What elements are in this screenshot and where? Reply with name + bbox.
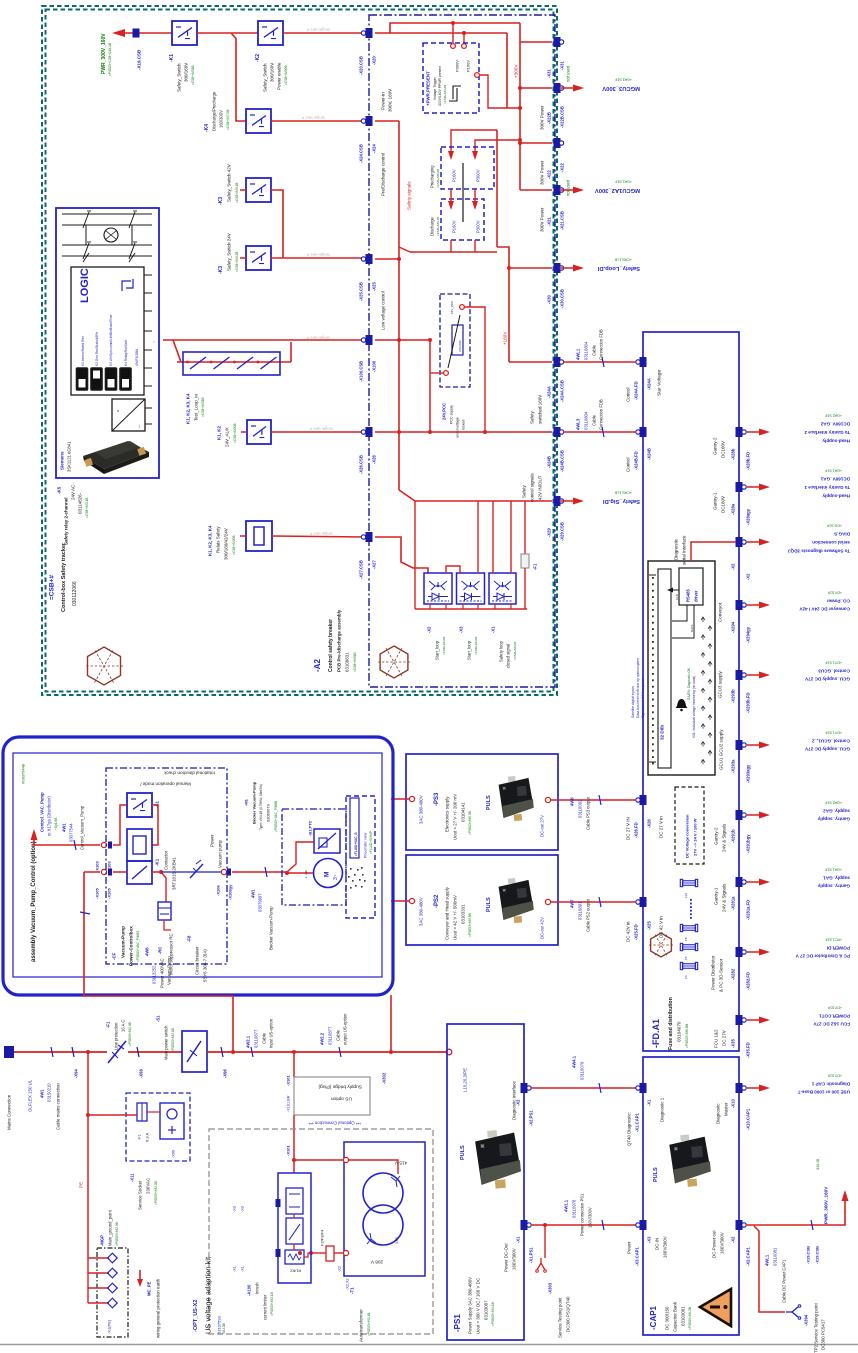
svg-text:CLK: CLK (675, 594, 679, 600)
svg-text:24V.PCC: 24V.PCC (442, 403, 447, 420)
wire X31 tap (520, 41, 552, 43)
svg-text:PULS: PULS (653, 1167, 659, 1182)
socket outlet (160, 1103, 184, 1139)
svg-text:-X101.BR: -X101.BR (286, 1095, 290, 1112)
svg-text:Diagnostic: Diagnostic (674, 538, 679, 560)
US voltage adaption kit boundary (209, 1129, 433, 1334)
svg-text:4W1: 4W1 (251, 889, 256, 898)
svg-text:-X19.CSB: -X19.CSB (137, 49, 142, 70)
power supply PS1 box (447, 1024, 524, 1340)
svg-text:Diagnostic 1: Diagnostic 1 (660, 1097, 665, 1122)
svg-text:-X2: -X2 (731, 1236, 736, 1243)
svg-text:-X1: -X1 (240, 1266, 244, 1272)
svg-text:-X27.CSB: -X27.CSB (359, 560, 364, 579)
data bus lines (672, 605, 687, 621)
svg-text:POWER.DI: POWER.DI (827, 945, 850, 950)
svg-text:-X2: -X2 (746, 573, 751, 580)
svg-text:Power: Power (627, 1241, 632, 1254)
svg-text:03113252: 03113252 (152, 965, 157, 984)
svg-text:3~: 3~ (333, 874, 339, 880)
svg-text:-X291b: -X291b (731, 829, 736, 843)
svg-text:F5: F5 (684, 956, 688, 960)
svg-text:=CSB+/M30B: =CSB+/M30B (284, 66, 288, 86)
node X24A on CSB border (554, 357, 561, 367)
svg-text:-PS2: -PS2 (434, 894, 440, 908)
svg-text:CO_Power: CO_Power (827, 598, 850, 603)
cable 4W2.2 output US-option (339, 1047, 341, 1057)
wire X22 tap (520, 142, 552, 144)
off-page head supply GA2 (747, 431, 762, 433)
service socket box (126, 1093, 190, 1161)
svg-text:Cable PS2 output: Cable PS2 output (586, 898, 591, 932)
discharge return wires (451, 240, 497, 252)
LED strip (658, 569, 671, 768)
socket wires (88, 1114, 137, 1116)
svg-text:F2/F3/F4: F2/F3/F4 (319, 1229, 324, 1246)
CSB logo hexagon (88, 647, 121, 685)
svg-text:-K2: -K2 (255, 54, 261, 62)
node X24B on CSB border (554, 427, 561, 437)
safety switch K1 (172, 21, 197, 45)
discharge block (441, 199, 484, 240)
FD.A1 logo hexagon (651, 933, 672, 957)
svg-text:-X106gy: -X106gy (227, 884, 232, 900)
cable 4W8 PS3 output (551, 799, 636, 801)
optocoupler X2 start loop (424, 573, 452, 604)
svg-text:-X22: -X22 (547, 169, 552, 179)
svg-text:-X282.FD: -X282.FD (746, 972, 751, 990)
fuse F24 (683, 881, 696, 886)
svg-text:Single-wire #: Single-wire # (309, 427, 333, 432)
svg-text:serial connection: serial connection (812, 540, 850, 545)
svg-text:-PS3: -PS3 (434, 792, 440, 806)
safety relay K5 logic box (56, 208, 159, 478)
svg-text:+GA2.S1#: +GA2.S1# (825, 801, 842, 805)
node X27 on A2 border (366, 532, 373, 542)
wire X100 to bus (375, 339, 399, 341)
svg-text:-K1: -K1 (169, 54, 175, 62)
svg-text:P300V: P300V (476, 220, 481, 233)
svg-text:16 A C: 16 A C (121, 1020, 126, 1032)
svg-text:+DY.S1#: +DY.S1# (828, 1074, 842, 1078)
svg-text:Single-wire #: Single-wire # (301, 116, 325, 121)
off-page conveyor power (747, 604, 762, 606)
svg-text:-K3: -K3 (218, 266, 224, 274)
inrush wires (293, 1214, 295, 1218)
svg-text:4WL3: 4WL3 (576, 418, 581, 430)
node X20 on A2 border (366, 28, 373, 38)
svg-text:03114826-: 03114826- (78, 492, 83, 514)
svg-text:-X1.PS1: -X1.PS1 (529, 1247, 534, 1263)
PS2 output terminal (545, 899, 550, 904)
svg-text:-M1: -M1 (243, 798, 248, 806)
svg-text:03110877: 03110877 (254, 1029, 259, 1048)
svg-text:=CSB+/M8.0B: =CSB+/M8.0B (436, 169, 440, 188)
svg-text:-X2.PS1: -X2.PS1 (529, 1110, 534, 1126)
svg-text:Start_loop: Start_loop (467, 640, 472, 660)
off-page GCU1/2 supply (747, 744, 762, 746)
CAP1 diagnostic in X1 (640, 1083, 647, 1093)
svg-text:Voltage Trigger: Voltage Trigger (433, 76, 437, 100)
svg-text:QT40 Diagnostic:: QT40 Diagnostic: (627, 1112, 632, 1146)
svg-text:Supply bridge (Plug): Supply bridge (Plug) (318, 1083, 362, 1089)
svg-text:control signals: control signals (530, 472, 535, 502)
svg-text:24V_PCC: 24V_PCC (450, 300, 454, 314)
hysteresis glyph (449, 88, 457, 101)
manual operation note (163, 770, 215, 775)
node X106 (221, 869, 226, 874)
fuse F6 (683, 964, 696, 969)
svg-text:DC-out 42V: DC-out 42V (540, 917, 545, 939)
svg-text:-X3.CAP1: -X3.CAP1 (635, 1246, 640, 1266)
wire X2 to RS485 (691, 542, 736, 561)
svg-text:-X1: -X1 (516, 1236, 521, 1243)
svg-text:DC 27V: DC 27V (722, 1030, 727, 1046)
safety switch K3 42V (246, 178, 271, 202)
svg-text:-X10: -X10 (731, 1098, 736, 1108)
svg-text:FCU 1&2: FCU 1&2 (714, 1029, 719, 1048)
PS3 output terminal (545, 797, 550, 802)
siemens relay photo (83, 441, 149, 469)
svg-text:-X24B: -X24B (547, 456, 552, 468)
node -X293b FD.A1 right (736, 670, 743, 680)
svg-text:-X1: -X1 (232, 1266, 236, 1272)
svg-text:Safety: Safety (522, 484, 527, 498)
manual switch S1 vacuum (127, 793, 152, 817)
svg-text:=PSE03+CSB+/164.1B: =PSE03+CSB+/164.1B (108, 43, 112, 76)
svg-text:+GA1.S1#: +GA1.S1# (825, 469, 842, 473)
svg-text:Single-wire #: Single-wire # (306, 28, 330, 33)
svg-text:=FLUID+/SYMP: =FLUID+/SYMP (369, 831, 373, 854)
svg-text:Control: Control (626, 387, 631, 402)
svg-text:-OPT_US-X2: -OPT_US-X2 (193, 1300, 199, 1332)
svg-text:TP2 Service Testing point: TP2 Service Testing point (814, 1303, 819, 1353)
svg-text:PE: PE (79, 1182, 84, 1188)
svg-text:PWR_300V_160V: PWR_300V_160V (824, 1186, 829, 1224)
svg-text:OLFLEX 150 UL: OLFLEX 150 UL (28, 1079, 33, 1112)
svg-text:-X303: -X303 (548, 1282, 553, 1294)
mains bus wire (14, 1051, 107, 1053)
svg-text:Cable DC Power CAP1: Cable DC Power CAP1 (782, 1259, 787, 1303)
svg-text:R1/R2: R1/R2 (290, 1269, 301, 1273)
svg-text:=PSE03+/M2.1B: =PSE03+/M2.1B (270, 1292, 274, 1316)
svg-text:Control_GCU1,_2: Control_GCU1,_2 (812, 738, 850, 743)
svg-text:Safety_Loop.DI: Safety_Loop.DI (597, 265, 640, 271)
svg-text:Gantry-2: Gantry-2 (713, 437, 718, 455)
svg-text:-X24.CSB: -X24.CSB (359, 144, 364, 163)
AC/DC converter block (112, 399, 145, 431)
svg-text:Cable mains connection: Cable mains connection (56, 1083, 61, 1130)
off-page GCU3 supply (747, 674, 762, 676)
node X21 on CSB border (554, 185, 561, 195)
vacuum pump assembly outer box (3, 737, 393, 995)
cable 4W1.1 power connection PS1 (531, 1224, 636, 1226)
svg-text:Power Distributor: Power Distributor (711, 955, 716, 990)
svg-text:Power-in: Power-in (381, 92, 386, 110)
svg-text:4W1: 4W1 (40, 1089, 45, 1098)
svg-text:Vacuum-Pump: Vacuum-Pump (167, 956, 172, 985)
FD.A1 fuse and distribution board (643, 332, 739, 1051)
svg-text:-X2: -X2 (337, 1266, 341, 1272)
svg-text:-X25.CSB: -X25.CSB (359, 282, 364, 301)
fuse F5 (683, 945, 696, 950)
svg-text:DC160V_GA2: DC160V_GA2 (820, 421, 850, 426)
svg-text:-X3: -X3 (459, 626, 464, 633)
node X22 on CSB border (554, 138, 561, 148)
svg-text:-X2: -X2 (427, 626, 432, 633)
svg-text:Data bus level shift due by op: Data bus level shift due by optocouplers (636, 658, 640, 718)
PS3 photo (498, 775, 535, 823)
svg-text:To Software diagnosis 3DQJ: To Software diagnosis 3DQJ (788, 548, 850, 553)
svg-text:Cable: Cable (592, 344, 597, 356)
svg-text:Head-supply: Head-supply (822, 438, 850, 443)
PS2 input terminal (409, 898, 414, 903)
svg-text:4W4.1: 4W4.1 (572, 1055, 577, 1068)
svg-text:/164.1B: /164.1B (816, 1159, 820, 1170)
line protection breaker F1 (108, 1041, 126, 1063)
off-page MGCU3_300V (560, 87, 578, 89)
svg-text:P160V: P160V (452, 220, 457, 233)
svg-text:3AC 380-480V: 3AC 380-480V (419, 795, 424, 824)
svg-text:locked: locked (461, 420, 465, 430)
svg-text:F6: F6 (684, 975, 688, 979)
svg-text:US option: US option (331, 1095, 352, 1101)
svg-text:-FD.A1: -FD.A1 (651, 1019, 661, 1048)
svg-text:=PSE03+/N2.1B: =PSE03+/N2.1B (367, 1313, 371, 1336)
svg-text:-X28a: -X28a (731, 503, 736, 515)
svg-text:Conveyor: Conveyor (718, 602, 723, 622)
svg-text:Conveyor and Head supply: Conveyor and Head supply (445, 886, 450, 940)
svg-text:MGCU1A2_300V: MGCU1A2_300V (595, 187, 640, 193)
svg-text:-X282: -X282 (731, 968, 736, 980)
svg-text:Safety: Safety (530, 410, 535, 424)
svg-text:Capacitor Bank: Capacitor Bank (673, 1301, 678, 1332)
svg-text:Line protection: Line protection (114, 1022, 119, 1050)
svg-text:03116891: 03116891 (578, 901, 583, 920)
test loop contact block K1 K2 K3 K4 (183, 352, 280, 375)
svg-text:=CSB+#: =CSB+# (48, 575, 55, 600)
wire 24V_AUX to X26 (271, 431, 366, 433)
svg-text:300V Power: 300V Power (540, 160, 545, 185)
off-page PC distributor power (747, 951, 762, 953)
svg-text:DC-Power out: DC-Power out (712, 1230, 717, 1258)
svg-text:+160V: +160V (503, 331, 508, 345)
svg-text:-S1: -S1 (156, 1015, 161, 1022)
svg-text:03110092: 03110092 (578, 799, 583, 818)
svg-text:Autotransformer: Autotransformer (359, 1309, 364, 1342)
svg-text:Power 400VAC: Power 400VAC (160, 958, 165, 988)
svg-text:+Dy1.6B: +Dy1.6B (54, 818, 58, 830)
wire X106 to becker (232, 871, 287, 873)
svg-text:03077544: 03077544 (69, 823, 74, 842)
svg-text:Control-box Safety tracker: Control-box Safety tracker (61, 542, 67, 612)
svg-text:-X99: -X99 (171, 1150, 175, 1158)
24V.PCC undervoltage monitor (440, 294, 470, 387)
svg-text:-X2: -X2 (731, 563, 736, 570)
autotransformer T1 box (344, 1142, 425, 1276)
node X103 (101, 842, 106, 847)
svg-text:K1, K2, K3, K4: K1, K2, K3, K4 (208, 525, 213, 556)
svg-text:4W7: 4W7 (570, 899, 575, 908)
wire to +300V rail (507, 33, 520, 108)
svg-text:+DY1.S1#: +DY1.S1# (826, 731, 842, 735)
svg-text:GCU1 GCU2 supply: GCU1 GCU2 supply (719, 729, 724, 770)
svg-text:Gantry-1: Gantry-1 (713, 492, 718, 510)
svg-text:-X35: -X35 (731, 1038, 736, 1048)
node X105 (101, 869, 106, 874)
mains terminal (4, 1046, 14, 1058)
wire S1 to contactor (152, 805, 158, 845)
node -X28b FD.A1 right (736, 427, 743, 437)
svg-text:=CSB+/M7.0B: =CSB+/M7.0B (226, 110, 230, 130)
cable 4W4.1 diagnostic (531, 1087, 636, 1089)
wire X103 to S1 (113, 805, 127, 845)
A2 assembly boundary (navy dash-dot) (369, 15, 555, 687)
svg-text:=CSB+/M3.1B: =CSB+/M3.1B (235, 183, 239, 203)
node X98 (137, 1047, 139, 1057)
svg-text:-F1: -F1 (533, 563, 538, 570)
safety signals bus (398, 121, 400, 490)
wire mains to X105 (84, 871, 100, 873)
svg-text:300V/160V PPWR present: 300V/160V PPWR present (438, 66, 442, 106)
svg-text:closed signal: closed signal (506, 644, 511, 668)
CLK arrow (671, 589, 679, 591)
svg-text:Cable: Cable (336, 1029, 341, 1041)
svg-text:03110081: 03110081 (773, 1247, 778, 1266)
wire X24 to safety bus (375, 120, 399, 122)
svg-text:DC 27 V in: DC 27 V in (659, 816, 664, 838)
socket fuse (137, 1103, 147, 1121)
svg-text:=CSB+/M30B: =CSB+/M30B (232, 536, 236, 556)
svg-text:Diagnostic: Diagnostic (716, 1103, 721, 1124)
svg-text:/SU.3B: /SU.3B (222, 1323, 226, 1334)
svg-text:...: ... (135, 425, 140, 428)
node X26 on A2 border (366, 427, 373, 437)
svg-text:-X29.CSB: -X29.CSB (560, 522, 565, 541)
svg-text:03103087: 03103087 (484, 1300, 489, 1320)
DIP switches (77, 368, 88, 390)
svg-text:P160V: P160V (452, 169, 457, 182)
svg-text:PCB Pre-/discharge assembly: PCB Pre-/discharge assembly (337, 609, 342, 672)
inrush connector labels (276, 1199, 281, 1207)
svg-text:-X24B: -X24B (647, 448, 652, 460)
svg-text:=CSB+/M3.0B: =CSB+/M3.0B (443, 85, 447, 104)
svg-text:-F8: -F8 (187, 935, 192, 942)
MC_PE arrow (139, 1270, 141, 1280)
node X302 riser to vacuum box (389, 1050, 393, 1054)
svg-text:-X28b.FD: -X28b.FD (746, 452, 751, 470)
svg-text:rotational direction check: rotational direction check (163, 770, 215, 775)
svg-text:Control safety breaker: Control safety breaker (328, 619, 334, 672)
svg-text:3TH2040: 3TH2040 (458, 340, 462, 352)
off-page head supply GA1 (747, 486, 762, 488)
svg-text:to X17ga (Distributor): to X17ga (Distributor) (47, 796, 52, 836)
relay coil K1-K4 Relais Safety (246, 521, 272, 551)
off-page control VAC pump arrow (31, 829, 38, 840)
vacuum pump assembly inner box (13, 753, 382, 977)
svg-text:DC160V: DC160V (721, 441, 726, 458)
svg-text:Gantry-2: Gantry-2 (714, 827, 719, 845)
svg-text:-X100: -X100 (372, 360, 377, 372)
node X25 on A2 border (366, 254, 373, 264)
cable 4WL1 connection FDB (563, 361, 636, 363)
wire K4 to X24 (271, 120, 366, 122)
svg-text:Inrush: Inrush (255, 1282, 260, 1294)
svg-text:Conveyor DC 24V / 42V: Conveyor DC 24V / 42V (799, 606, 850, 611)
svg-text:GCU3 supply: GCU3 supply (718, 670, 723, 698)
svg-text:300/160V: 300/160V (270, 63, 275, 82)
svg-text:-X19.CSB: -X19.CSB (805, 1246, 810, 1264)
power supply PS2 box (406, 855, 558, 945)
svg-text:+DY1.S1#: +DY1.S1# (826, 661, 842, 665)
svg-text:-K4: -K4 (204, 124, 210, 132)
svg-text:-X26: -X26 (647, 818, 652, 828)
vacuum assembly riser junction (231, 1050, 235, 1054)
wire bus to PCC (399, 340, 430, 432)
svg-text:Control_GCU3: Control_GCU3 (818, 668, 850, 673)
svg-text:=PSE03+VAC_P/M6B: =PSE03+VAC_P/M6B (274, 801, 278, 832)
svg-text:+GA2.S1#: +GA2.S1# (825, 414, 842, 418)
CAP1 photo (669, 1133, 712, 1188)
svg-text:-X100.CSB: -X100.CSB (359, 361, 364, 382)
svg-text:-X24B.FD: -X24B.FD (634, 451, 639, 470)
svg-text:-X24A.FD: -X24A.FD (634, 381, 639, 400)
svg-text:Control_Vacuum_Pump: Control_Vacuum_Pump (80, 805, 85, 850)
svg-text:-X293agy: -X293agy (746, 764, 751, 783)
node -X2 FD.A1 right (736, 537, 743, 547)
svg-text:Uout = 300 V DC / 160 V DC: Uout = 300 V DC / 160 V DC (476, 1278, 481, 1334)
svg-text:Service Testing point: Service Testing point (558, 1297, 563, 1338)
svg-text:160V/300V: 160V/300V (588, 1207, 593, 1228)
wire X27 to optocouplers (375, 537, 428, 573)
node X30 on CSB border (554, 263, 561, 273)
svg-text:Safety_Switch 42V: Safety_Switch 42V (227, 164, 232, 202)
svg-text:Safety relay 2-channel: Safety relay 2-channel (64, 497, 69, 545)
RS485 driver (679, 568, 703, 605)
node -X293a FD.A1 right (736, 740, 743, 750)
svg-text:Test_Loop_In: Test_Loop_In (194, 393, 199, 421)
svg-text:K4 Relay/Rot/Safe: K4 Relay/Rot/Safe (124, 340, 128, 366)
svg-text:4/WF1/SBM: 4/WF1/SBM (135, 348, 139, 366)
svg-text:-X26.CSB: -X26.CSB (359, 455, 364, 474)
node X101 branch (292, 1050, 296, 1054)
svg-text:-B1.PTC: -B1.PTC (307, 820, 312, 836)
svg-text:-K1: -K1 (155, 858, 160, 866)
svg-text:-X105: -X105 (94, 888, 99, 899)
node -X294 FD.A1 right (736, 600, 743, 610)
DC voltage conversion block (675, 787, 704, 864)
svg-text:Cable: Cable (262, 1032, 267, 1044)
off-page Safety_Sig.DI (560, 500, 578, 502)
node -X282 FD.A1 right (736, 947, 743, 957)
svg-text:-A100: -A100 (247, 1284, 252, 1296)
svg-text:Becker Vacuum-Pump: Becker Vacuum-Pump (269, 906, 274, 950)
optional connection note (308, 1120, 361, 1125)
svg-text:=CSB+/M31B: =CSB+/M31B (353, 653, 357, 673)
svg-text:-X29: -X29 (547, 527, 552, 537)
optocoupler X3 start loop (457, 573, 485, 604)
svg-text:Safety loop: Safety loop (499, 640, 504, 662)
svg-text:FCU 1&2 DC 27V: FCU 1&2 DC 27V (813, 1021, 850, 1026)
svg-text:-F1: -F1 (137, 1134, 141, 1140)
svg-text:Circuit breaker: Circuit breaker (195, 946, 200, 975)
svg-text:-F1: -F1 (106, 1021, 111, 1028)
svg-text:Safety signals: Safety signals (407, 181, 412, 210)
node X22B on CSB border (554, 83, 561, 93)
svg-text:-X25: -X25 (372, 281, 377, 291)
svg-text:03110804: 03110804 (584, 341, 589, 360)
svg-text:-CF: -CF (112, 952, 117, 960)
